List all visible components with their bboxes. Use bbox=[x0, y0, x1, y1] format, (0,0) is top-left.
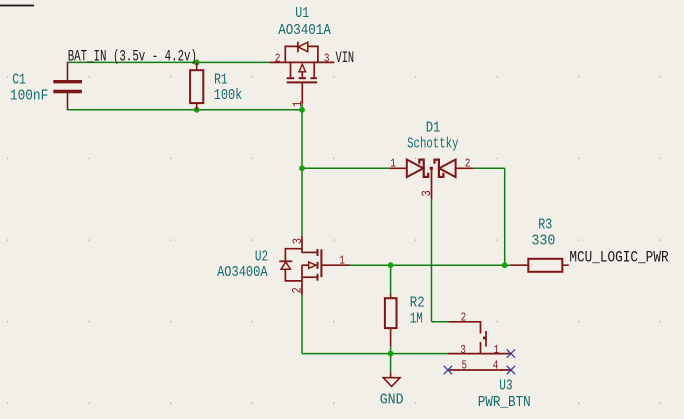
gate pin 1 bbox=[301, 82, 303, 103]
svg-text:C1: C1 bbox=[12, 71, 26, 88]
no-connect X pin4 bbox=[507, 366, 515, 374]
channel bars bbox=[287, 77, 295, 79]
junction node R1 bottom bbox=[194, 107, 200, 113]
body diode bbox=[298, 42, 308, 52]
junction node D1 pin1 tee bbox=[299, 165, 305, 171]
wire D1 pin3 down to U3 pin2 bbox=[431, 199, 433, 322]
junction node R3 left bbox=[502, 262, 508, 268]
transistor U2 NMOS AO3400A bbox=[279, 236, 350, 295]
svg-text:1: 1 bbox=[291, 101, 305, 107]
svg-text:1: 1 bbox=[390, 158, 396, 171]
svg-text:1: 1 bbox=[494, 344, 500, 357]
svg-text:2: 2 bbox=[291, 287, 305, 293]
svg-text:1M: 1M bbox=[410, 310, 423, 327]
wire to D1 pin1 bbox=[302, 167, 390, 169]
svg-text:2: 2 bbox=[275, 53, 281, 66]
svg-text:5: 5 bbox=[462, 360, 468, 373]
wire R2 bottom bbox=[390, 346, 392, 353]
substrate arrow bbox=[309, 262, 316, 268]
body-diode rail bbox=[285, 46, 298, 62]
wire U2 pin2 down bbox=[301, 295, 303, 354]
middle leg bbox=[302, 264, 310, 266]
pin 1 bbox=[390, 167, 407, 169]
gate line bbox=[287, 81, 318, 83]
no-connect X pin1 bbox=[507, 349, 515, 357]
wire U2 pin1 net bbox=[350, 264, 510, 266]
substrate arrow bbox=[299, 64, 306, 72]
svg-text:U3: U3 bbox=[499, 377, 512, 394]
svg-text:3: 3 bbox=[291, 238, 305, 244]
wire bottom rail bbox=[68, 109, 303, 111]
transistor U1 AO3401A bbox=[270, 42, 335, 104]
body-diode rail bbox=[285, 249, 302, 281]
resistor R2 bbox=[385, 295, 397, 347]
junction node U1 gate bbox=[299, 107, 305, 113]
wire corner to U3 pin2 bbox=[432, 321, 449, 323]
bottom leg bbox=[302, 276, 318, 278]
mid-to-source vertical bbox=[301, 265, 303, 281]
channel legs bbox=[290, 62, 292, 77]
actuator nub bbox=[483, 337, 486, 340]
pin 2 line through body to pin 3 bbox=[270, 61, 335, 63]
pin 1 bbox=[321, 264, 350, 266]
wire gnd rail to U3 bbox=[302, 353, 448, 355]
pin 3 / pin 1 line bbox=[448, 353, 511, 355]
svg-text:3: 3 bbox=[324, 53, 330, 66]
pin 3 bbox=[431, 168, 433, 198]
ground bbox=[383, 372, 400, 386]
svg-text:100nF: 100nF bbox=[10, 88, 48, 105]
left schottky bar bbox=[419, 160, 428, 177]
svg-text:VIN: VIN bbox=[336, 49, 355, 67]
svg-text:2: 2 bbox=[465, 158, 471, 171]
no-connect X pin5 bbox=[444, 366, 452, 374]
svg-text:1: 1 bbox=[339, 255, 345, 268]
junction node BAT_IN/R1 top bbox=[194, 60, 200, 66]
channel bars bbox=[317, 249, 319, 256]
resistor R3 bbox=[510, 259, 569, 272]
right schottky bar bbox=[435, 160, 444, 177]
diode D1 dual schottky bbox=[390, 160, 474, 199]
lower contact bbox=[480, 342, 482, 354]
right anode triangle bbox=[439, 160, 455, 178]
svg-text:BAT_IN (3.5v - 4.2v): BAT_IN (3.5v - 4.2v) bbox=[68, 48, 197, 65]
gate bar bbox=[320, 249, 322, 277]
center junction bbox=[430, 167, 433, 170]
wire gnd stub bbox=[390, 354, 392, 373]
svg-text:3: 3 bbox=[460, 344, 466, 357]
resistor R1 bbox=[190, 62, 203, 109]
svg-text:GND: GND bbox=[380, 392, 404, 409]
wire R2 top bbox=[390, 265, 392, 294]
top leg bbox=[302, 251, 318, 253]
svg-text:Schottky: Schottky bbox=[407, 135, 459, 152]
svg-text:R1: R1 bbox=[214, 71, 228, 88]
pin 2 bbox=[456, 167, 473, 169]
junction node R2 top bbox=[388, 262, 394, 268]
svg-text:330: 330 bbox=[531, 233, 555, 250]
pin 3 bbox=[301, 236, 303, 253]
wire down to R3 node bbox=[504, 168, 506, 265]
svg-text:MCU_LOGIC_PWR: MCU_LOGIC_PWR bbox=[569, 249, 669, 266]
pin 2 bbox=[301, 281, 303, 295]
svg-text:R3: R3 bbox=[538, 217, 552, 234]
svg-text:PWR_BTN: PWR_BTN bbox=[478, 394, 531, 411]
pin 5 / pin 4 line bbox=[448, 369, 511, 371]
svg-text:4: 4 bbox=[493, 360, 499, 373]
svg-text:2: 2 bbox=[461, 312, 467, 325]
svg-text:AO3400A: AO3400A bbox=[217, 265, 268, 282]
wire D1 pin2 to corner bbox=[473, 167, 505, 169]
left anode triangle bbox=[407, 160, 424, 178]
capacitor C1 bbox=[53, 62, 82, 110]
switch U3 PWR_BTN bbox=[448, 322, 511, 370]
wire main vertical to U2 bbox=[301, 104, 303, 236]
pin 2 lead bbox=[448, 322, 480, 334]
wire BAT_IN rail bbox=[68, 61, 270, 63]
actuator bar bbox=[485, 331, 487, 347]
body diode bbox=[279, 260, 292, 262]
svg-text:3: 3 bbox=[420, 190, 434, 196]
junction node GND bbox=[388, 351, 394, 357]
svg-text:100k: 100k bbox=[214, 88, 242, 105]
svg-text:U1: U1 bbox=[295, 6, 309, 23]
svg-text:AO3401A: AO3401A bbox=[278, 22, 331, 39]
svg-text:U2: U2 bbox=[255, 248, 268, 265]
